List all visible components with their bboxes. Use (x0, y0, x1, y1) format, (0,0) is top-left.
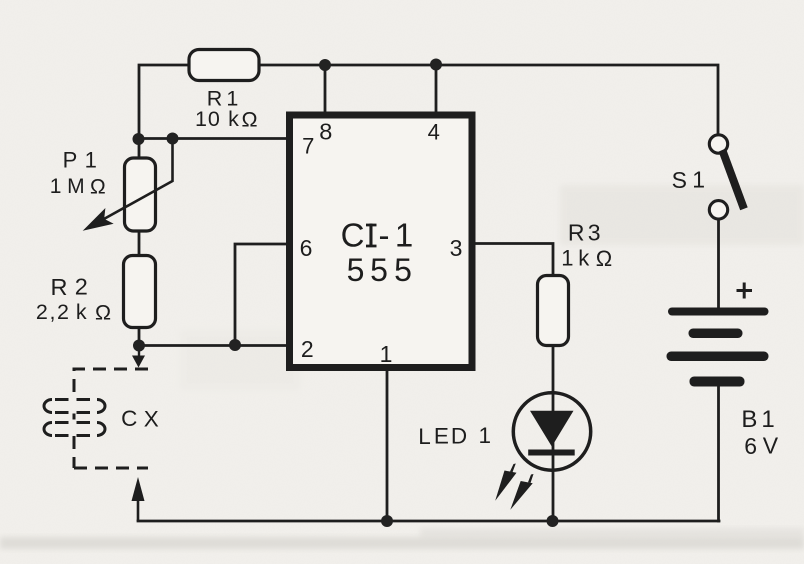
svg-text:I: I (366, 217, 375, 254)
svg-text:6: 6 (300, 235, 313, 261)
svg-text:2: 2 (301, 336, 314, 362)
svg-text:R: R (51, 274, 68, 300)
label 555 (347, 252, 412, 288)
wire P1 top lead (138, 139, 141, 158)
node pin2 / R2 bottom (133, 340, 145, 352)
resistor R1 (189, 50, 259, 81)
svg-text:5: 5 (370, 252, 388, 288)
svg-text:C: C (341, 217, 365, 254)
label 1k ohm (561, 246, 612, 272)
svg-text:E: E (434, 424, 449, 449)
node pin7 / P1 top (133, 133, 145, 145)
svg-text:3: 3 (450, 235, 463, 261)
scan shading patches (0, 185, 804, 549)
wire switch to battery (717, 218, 720, 308)
wire battery to bottom rail (717, 385, 720, 521)
svg-text:L: L (418, 424, 431, 449)
svg-text:-: - (379, 217, 390, 254)
CX bottom connection arrow (132, 477, 145, 521)
svg-text:1: 1 (761, 406, 774, 433)
label 2,2k ohm (36, 300, 111, 325)
wire top rail from R1 left corner to switch corner (139, 65, 718, 139)
svg-text:S: S (672, 167, 687, 193)
LED1 symbol (513, 393, 590, 470)
svg-text:7: 7 (302, 133, 314, 158)
svg-text:1: 1 (395, 217, 413, 254)
svg-text:C: C (121, 406, 137, 431)
svg-text:Ω: Ω (596, 246, 612, 271)
svg-text:8: 8 (319, 119, 332, 145)
node bottom rail / LED (547, 515, 559, 527)
svg-text:0: 0 (208, 107, 220, 131)
svg-text:2: 2 (75, 274, 88, 300)
capacitor CX sensor dashed leads (74, 369, 148, 468)
label 6V (744, 433, 778, 460)
wire pin3 to R3 (475, 244, 553, 276)
node top rail / pin8 (319, 59, 331, 71)
svg-text:1: 1 (561, 246, 573, 271)
svg-text:2: 2 (36, 300, 48, 324)
wire pin8 drop (324, 65, 327, 111)
node top rail / pin4 (430, 59, 442, 71)
resistor R3 (538, 276, 569, 346)
CX top connection arrow (132, 345, 145, 368)
svg-text:Ω: Ω (242, 108, 258, 132)
svg-text:B: B (741, 406, 757, 433)
svg-text:4: 4 (428, 120, 440, 145)
svg-text:Ω: Ω (90, 175, 106, 198)
svg-text:Ω: Ω (95, 301, 111, 325)
wire pin6 (235, 244, 289, 346)
svg-text:1: 1 (380, 341, 393, 367)
wire bottom rail (138, 520, 719, 523)
capacitor CX plate 1 (44, 400, 105, 413)
resistor R2 (124, 256, 156, 328)
svg-text:R: R (568, 220, 585, 246)
node: junction dots (133, 59, 559, 528)
label LED 1 (418, 423, 491, 449)
capacitor CX centre link dash (73, 414, 76, 420)
svg-text:1: 1 (692, 167, 705, 193)
label CI-1 (341, 217, 414, 254)
svg-text:k: k (76, 300, 87, 324)
label R1 (207, 86, 239, 110)
label 1M ohm (50, 175, 106, 198)
node pin7 / wiper (167, 133, 179, 145)
label R3 (568, 219, 601, 245)
svg-text:5: 5 (394, 252, 412, 288)
node pin2 / pin6 (229, 339, 241, 351)
svg-text:P: P (63, 148, 78, 173)
wire pin1 drop to bottom rail (386, 371, 389, 521)
label P1 (63, 148, 97, 173)
potentiometer P1 body (125, 158, 156, 231)
IC U1 CI-1 555 body (290, 115, 473, 368)
svg-text:3: 3 (588, 219, 601, 245)
battery B1 (667, 308, 769, 387)
label S1 (672, 167, 705, 194)
svg-text:k: k (228, 107, 239, 131)
LED1 light arrows (495, 464, 533, 510)
switch S1 (709, 135, 747, 219)
svg-text:k: k (578, 246, 590, 271)
label CX (121, 406, 159, 431)
wire pin4 drop (435, 65, 438, 112)
svg-text:1: 1 (85, 148, 97, 173)
svg-text:D: D (451, 424, 467, 449)
label B1 (741, 406, 774, 433)
node bottom rail / pin1 (381, 515, 393, 527)
label 10k ohm (195, 107, 258, 131)
wire R3 to LED to bottom rail (552, 345, 555, 521)
svg-text:1: 1 (195, 107, 207, 131)
svg-text:2: 2 (57, 300, 69, 324)
wire R2 bottom lead (138, 327, 141, 346)
potentiometer P1 wiper arrow (85, 139, 173, 230)
svg-text:6: 6 (744, 433, 757, 459)
wire pin2 (139, 344, 289, 347)
wire pin7 (139, 137, 289, 140)
svg-text:V: V (763, 433, 779, 459)
wire P1-R2 link (138, 231, 141, 256)
svg-text:X: X (144, 406, 159, 431)
capacitor CX plate 2 (44, 423, 105, 436)
svg-text:1: 1 (50, 175, 62, 198)
svg-text:M: M (67, 175, 85, 198)
svg-text:,: , (50, 300, 56, 324)
label R2 (51, 274, 88, 301)
battery plus sign (737, 283, 753, 299)
svg-text:1: 1 (478, 423, 491, 448)
svg-text:5: 5 (347, 252, 365, 288)
